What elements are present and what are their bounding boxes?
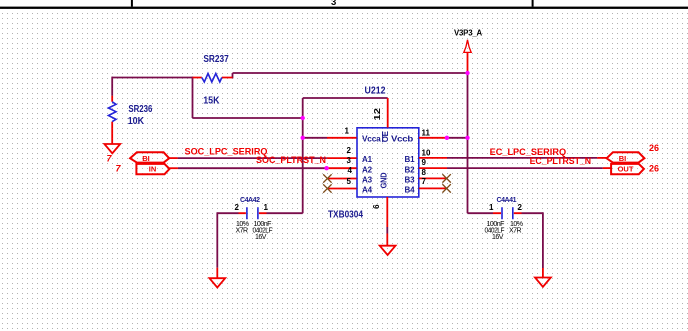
- wire left cap to column: [267, 212, 303, 214]
- svg-text:BI: BI: [142, 154, 150, 163]
- svg-text:IN: IN: [149, 165, 157, 174]
- svg-text:7: 7: [422, 177, 427, 186]
- pin 3: [327, 167, 357, 169]
- pin 1: [327, 137, 357, 139]
- svg-text:V3P3_A: V3P3_A: [454, 28, 482, 37]
- svg-text:BI: BI: [619, 154, 627, 163]
- svg-text:C4A42: C4A42: [240, 197, 260, 204]
- wire SOC_LPC_SERIRQ: [178, 157, 327, 159]
- svg-text:11: 11: [422, 129, 431, 138]
- svg-text:15K: 15K: [203, 96, 220, 107]
- svg-text:OUT: OUT: [618, 165, 634, 174]
- no-connect X pin4: [323, 174, 331, 182]
- wire top-left horizontal: [112, 77, 192, 79]
- pin 7: [419, 187, 447, 189]
- resistor SR237: [193, 54, 233, 107]
- pin 8: [419, 177, 447, 179]
- wire left cap ground vertical: [216, 212, 218, 267]
- pin 5: [327, 188, 356, 190]
- port BI right: [597, 152, 644, 163]
- svg-text:TXB0304: TXB0304: [328, 210, 363, 221]
- wire pin1 segment: [303, 137, 327, 139]
- svg-text:6: 6: [372, 204, 381, 209]
- port IN left: [136, 164, 178, 174]
- svg-text:5: 5: [347, 177, 352, 186]
- svg-text:U212: U212: [365, 85, 386, 96]
- wire to right cap: [468, 212, 494, 214]
- svg-text:A2: A2: [362, 165, 373, 174]
- resistor SR236: [108, 96, 152, 144]
- wire left cap to ground corner: [217, 212, 238, 214]
- svg-text:4: 4: [348, 166, 353, 175]
- ground (under C4A42): [209, 268, 225, 288]
- svg-text:2: 2: [347, 146, 352, 155]
- wire SR236 top feed: [111, 77, 113, 96]
- svg-text:SR237: SR237: [203, 54, 229, 65]
- svg-text:B3: B3: [405, 175, 416, 184]
- port OUT right: [603, 164, 644, 174]
- no-connect X pin5: [323, 184, 331, 192]
- wire horizontal to pin1 column: [193, 117, 303, 119]
- wire V3P3 vertical: [467, 73, 469, 213]
- svg-text:16V: 16V: [492, 234, 504, 241]
- wire EC_LPC_SERIRQ: [447, 157, 597, 159]
- svg-text:26: 26: [649, 143, 659, 153]
- svg-text:10K: 10K: [128, 116, 145, 127]
- pin 9: [419, 167, 447, 169]
- no-connect X pin7: [442, 184, 450, 192]
- ground (under C4A41): [535, 268, 551, 287]
- svg-text:GND: GND: [380, 172, 389, 188]
- pin 4: [327, 178, 356, 180]
- ground (under pin6): [380, 234, 396, 256]
- capacitor C4A42: [235, 197, 273, 241]
- power symbol V3P3_A: [454, 28, 482, 73]
- wire EC_PLTRST_N: [447, 167, 603, 169]
- junction pin11 b: [465, 136, 469, 140]
- svg-text:3: 3: [347, 156, 352, 165]
- wire top horizontal to V3P3: [233, 72, 468, 74]
- svg-text:16V: 16V: [255, 234, 267, 241]
- svg-text:X7R: X7R: [509, 228, 522, 235]
- op IC U212 TXB0304: [328, 85, 419, 220]
- svg-text:8: 8: [422, 168, 427, 177]
- svg-text:A3: A3: [362, 175, 373, 184]
- svg-text:A4: A4: [362, 186, 373, 195]
- svg-text:26: 26: [649, 164, 659, 174]
- svg-text:1: 1: [264, 203, 269, 212]
- svg-text:2: 2: [235, 203, 240, 212]
- wire right cap to ground corner: [522, 212, 543, 214]
- wire right cap ground vertical: [542, 212, 544, 268]
- junction pin1: [301, 136, 305, 140]
- svg-text:SR236: SR236: [128, 104, 152, 115]
- svg-text:Vcca: Vcca: [362, 134, 381, 143]
- svg-text:2: 2: [518, 203, 523, 212]
- pin 11: [419, 137, 447, 139]
- pin 10: [419, 157, 447, 159]
- svg-text:B1: B1: [405, 155, 416, 164]
- svg-text:B2: B2: [405, 165, 416, 174]
- svg-text:Vccb: Vccb: [391, 134, 413, 143]
- capacitor C4A41: [485, 197, 523, 241]
- pin 2: [327, 157, 357, 159]
- junction pin11 a: [445, 136, 449, 140]
- svg-text:EC_PLTRST_N: EC_PLTRST_N: [530, 156, 592, 166]
- svg-text:SOC_PLTRST_N: SOC_PLTRST_N: [256, 155, 326, 165]
- no-connect X pin8: [442, 174, 450, 182]
- wire pin11 segment: [447, 137, 468, 139]
- wire SOC_PLTRST_N: [178, 167, 327, 169]
- junction pin3 label anchor: [324, 166, 328, 170]
- svg-text:X7R: X7R: [236, 228, 249, 235]
- wire step after SR237: [232, 73, 234, 78]
- ground (under SR236): [104, 144, 120, 153]
- svg-text:A1: A1: [362, 155, 373, 164]
- port BI left: [130, 152, 178, 163]
- junction V3P3 top: [465, 71, 469, 75]
- svg-text:C4A41: C4A41: [497, 197, 517, 204]
- svg-text:1: 1: [489, 203, 494, 212]
- svg-text:12: 12: [373, 107, 382, 120]
- junction feed column y118: [301, 116, 305, 120]
- svg-text:B4: B4: [405, 186, 416, 195]
- pin 12: [387, 98, 389, 128]
- svg-text:10: 10: [422, 148, 431, 157]
- wire pin6 to ground: [386, 227, 388, 234]
- pin 6: [386, 197, 388, 227]
- svg-text:3: 3: [331, 0, 336, 8]
- svg-text:9: 9: [422, 158, 427, 167]
- svg-text:1: 1: [345, 127, 350, 136]
- wire drop from SR237 left lead: [192, 77, 194, 118]
- wire Vcca feed horizontal: [303, 97, 388, 99]
- wire vertical pin1/cap column: [302, 98, 304, 213]
